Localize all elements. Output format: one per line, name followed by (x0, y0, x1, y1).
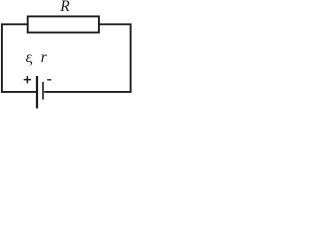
svg-text:,: , (29, 50, 33, 67)
svg-text:r: r (41, 49, 48, 66)
svg-text:R: R (59, 0, 70, 15)
